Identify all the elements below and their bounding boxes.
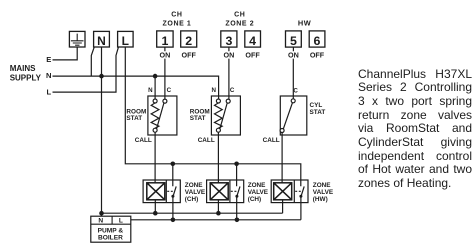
svg-text:N: N bbox=[148, 87, 153, 94]
svg-text:5: 5 bbox=[290, 34, 297, 48]
wire terminal 1 ON to roomstat 1 C bbox=[164, 47, 166, 99]
roomstat 2 switch blade bbox=[220, 103, 227, 129]
junction N bus / N wire bbox=[99, 74, 104, 79]
wire valve 3 motor to N rail end bbox=[282, 200, 284, 213]
junction motor 1 / N rail bbox=[153, 211, 158, 216]
cylstat bottom circle bbox=[280, 129, 284, 133]
zone valve 1 divider bbox=[165, 180, 167, 203]
roomstat 2 C circle bbox=[226, 99, 230, 103]
cylstat switch blade bbox=[283, 103, 292, 129]
roomstat 2 box bbox=[211, 96, 240, 135]
svg-text:2: 2 bbox=[185, 34, 192, 48]
wire E supply bbox=[53, 47, 78, 60]
zone valve 1 outer box bbox=[143, 180, 180, 203]
wire roomstat 2 CALL to valve 2 motor bbox=[217, 132, 219, 183]
wire cylstat CALL to valve 3 motor bbox=[281, 133, 283, 183]
svg-text:3: 3 bbox=[225, 34, 232, 48]
svg-text:C: C bbox=[167, 87, 172, 94]
svg-text:CH: CH bbox=[234, 11, 245, 18]
programmer terminal box 6 bbox=[309, 31, 325, 47]
junction switch 1 / aux rail bbox=[171, 218, 176, 223]
roomstat 2 bottom circle bbox=[216, 128, 220, 132]
svg-text:BOILER: BOILER bbox=[98, 235, 123, 242]
programmer terminal box 2 bbox=[181, 31, 197, 47]
zone valve 2 aux switch bbox=[237, 164, 240, 220]
svg-text:OFF: OFF bbox=[245, 50, 260, 59]
wire valve 2 motor to N rail bbox=[217, 200, 219, 213]
wire N supply bbox=[53, 76, 219, 99]
svg-text:(HW): (HW) bbox=[313, 196, 328, 203]
svg-text:(CH): (CH) bbox=[185, 196, 199, 203]
earth symbol bbox=[71, 34, 84, 46]
svg-text:OFF: OFF bbox=[182, 50, 197, 59]
wire valve 1 motor to N rail bbox=[154, 200, 156, 213]
svg-text:L: L bbox=[122, 34, 129, 48]
wire N bus bbox=[101, 47, 103, 216]
aux switch rail to pump L bbox=[131, 219, 301, 221]
junction roomstat1 N feed bbox=[153, 74, 158, 79]
zone valve 3 aux switch blade and out wire bbox=[301, 186, 304, 219]
svg-text:STAT: STAT bbox=[126, 115, 142, 122]
switch contact dot 2 bbox=[235, 195, 238, 198]
svg-text:N: N bbox=[97, 34, 106, 48]
N rail bbox=[102, 212, 283, 214]
earth terminal box E bbox=[69, 31, 85, 47]
junction L rail / switch 1 bbox=[171, 162, 176, 167]
svg-text:OFF: OFF bbox=[310, 50, 325, 59]
svg-text:L: L bbox=[46, 87, 51, 96]
junction switch 2 / aux rail bbox=[235, 218, 240, 223]
zone valve 1 aux switch bbox=[173, 164, 176, 220]
programmer terminal box 4 bbox=[245, 31, 261, 47]
zone valve 2 outer box bbox=[207, 180, 244, 203]
zone valve 3 linkage dashes bbox=[295, 190, 301, 192]
programmer terminal box 3 bbox=[221, 31, 237, 47]
svg-text:CALL: CALL bbox=[263, 137, 280, 144]
cylstat box bbox=[280, 96, 307, 135]
pump and boiler box bbox=[91, 216, 131, 242]
svg-text:C: C bbox=[230, 87, 235, 94]
junction L rail / switch 2 bbox=[234, 162, 239, 167]
programmer terminal box 5 bbox=[286, 31, 302, 47]
roomstat 1 switch blade bbox=[157, 103, 164, 129]
zone valve 2 linkage dashes bbox=[231, 190, 237, 192]
svg-text:CALL: CALL bbox=[198, 137, 215, 144]
svg-text:ZONE 1: ZONE 1 bbox=[163, 21, 192, 28]
svg-text:ON: ON bbox=[288, 50, 299, 59]
zone valve 1 motor box with X bbox=[147, 183, 165, 200]
roomstat 1 bottom circle bbox=[153, 128, 157, 132]
junction N bus / N rail bbox=[99, 211, 104, 216]
zone valve 2 divider bbox=[229, 180, 231, 203]
wire N box diagonal bbox=[91, 47, 94, 76]
roomstat 1 box bbox=[148, 96, 177, 135]
zone valve 2 motor box with X bbox=[210, 183, 228, 200]
svg-text:CYL: CYL bbox=[310, 102, 323, 109]
wire L bus and L rail to valve switches bbox=[125, 47, 300, 186]
wire L supply bbox=[53, 47, 119, 92]
labels bbox=[163, 11, 312, 27]
svg-text:HW: HW bbox=[298, 19, 312, 28]
wire roomstat 1 CALL to valve 1 motor bbox=[154, 132, 156, 183]
switch contact dot 1 bbox=[171, 195, 174, 198]
svg-text:C: C bbox=[293, 87, 298, 94]
svg-text:L: L bbox=[119, 218, 123, 225]
zone valve 3 outer box bbox=[271, 180, 308, 203]
svg-text:SUPPLY: SUPPLY bbox=[10, 73, 42, 82]
roomstat 1 N circle bbox=[153, 99, 157, 103]
svg-text:(CH): (CH) bbox=[248, 196, 262, 203]
terminal box N bbox=[94, 31, 110, 47]
svg-text:ON: ON bbox=[224, 50, 235, 59]
programmer terminal box 1 bbox=[157, 31, 173, 47]
svg-text:E: E bbox=[46, 55, 51, 64]
svg-text:1: 1 bbox=[161, 34, 168, 48]
svg-text:N: N bbox=[46, 71, 51, 80]
svg-text:MAINS: MAINS bbox=[10, 64, 36, 73]
wire terminal 5 ON to cylstat C bbox=[292, 47, 294, 99]
wire roomstat 1 N feed bbox=[154, 76, 156, 99]
svg-text:ON: ON bbox=[160, 50, 171, 59]
switch contact dot 3 bbox=[299, 195, 302, 198]
roomstat 2 resistor zigzag bbox=[215, 103, 223, 128]
svg-text:STAT: STAT bbox=[190, 115, 206, 122]
svg-text:PUMP &: PUMP & bbox=[98, 227, 124, 234]
terminal box L bbox=[118, 31, 134, 47]
stat terminal circles bbox=[153, 99, 295, 133]
svg-text:N: N bbox=[211, 87, 216, 94]
svg-text:CH: CH bbox=[171, 11, 182, 18]
zone valve 1 linkage dashes bbox=[167, 190, 173, 192]
roomstat 1 resistor zigzag bbox=[151, 103, 159, 128]
zone valve 3 divider bbox=[293, 180, 295, 203]
cylstat C circle bbox=[291, 99, 295, 103]
roomstat 2 N circle bbox=[216, 99, 220, 103]
svg-text:STAT: STAT bbox=[310, 109, 326, 116]
svg-text:N: N bbox=[98, 218, 103, 225]
svg-text:4: 4 bbox=[249, 34, 256, 48]
description paragraph bbox=[358, 68, 472, 191]
svg-text:6: 6 bbox=[314, 34, 321, 48]
wire terminal 3 ON to roomstat 2 C bbox=[228, 47, 230, 99]
svg-text:ZONE 2: ZONE 2 bbox=[225, 21, 254, 28]
junction motor 2 / N rail bbox=[216, 211, 221, 216]
zone valve 3 motor box with X bbox=[274, 183, 292, 200]
svg-text:CALL: CALL bbox=[135, 137, 152, 144]
roomstat 1 C circle bbox=[163, 99, 167, 103]
